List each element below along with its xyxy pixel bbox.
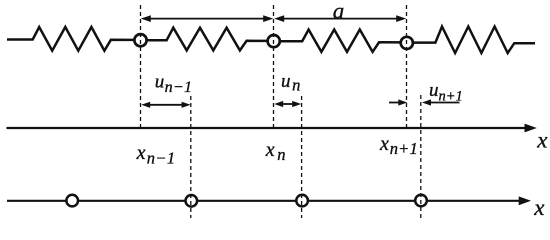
svg-text:x: x (533, 195, 545, 220)
atom circle n (equilibrium x_n) (268, 35, 280, 47)
displaced atom circle n+1 (415, 195, 427, 207)
svg-text:a: a (333, 0, 345, 23)
displaced atom circle n (296, 195, 308, 207)
inward arrow left: displacement u_{n+1} (389, 99, 407, 105)
atom circle n-1 (equilibrium x_{n-1}) (134, 34, 146, 46)
wire: lead + spring 3 + lead between atoms n and n+1 (278, 30, 402, 52)
dashed guide line at x_{n+1} (406, 5, 408, 128)
double arrow: displacement u_n (274, 101, 301, 107)
atom circle n+1 (equilibrium x_{n+1}) (401, 37, 413, 49)
dashed guide line at displaced atom n-1 (190, 96, 192, 218)
wire: lead + spring 2 + lead between atoms n-1 and n (145, 28, 269, 51)
double arrow: displacement u_{n-1} (141, 102, 190, 108)
inward arrow right: displacement u_{n+1} (422, 99, 460, 105)
displaced atom circle n-1 (186, 195, 198, 207)
displaced atom circle (left of x_{n-1}) (66, 195, 78, 207)
dashed guide line at x_n (273, 5, 275, 128)
dashed guide line at displaced atom n (301, 96, 303, 218)
wire: left lead + spring 1 + lead to atom n-1 (7, 27, 136, 51)
wire: lead + spring 4 + right lead after atom n+1 (411, 27, 535, 54)
middle x axis (7, 124, 537, 133)
svg-text:x: x (536, 127, 548, 152)
double arrow: lattice spacing (left cell) (141, 15, 273, 22)
dashed guide line at displaced atom n+1 (420, 95, 422, 218)
dashed guide line at x_{n-1} (140, 5, 142, 128)
bottom x axis (7, 196, 531, 205)
double arrow: lattice spacing a (right cell) (274, 15, 406, 22)
